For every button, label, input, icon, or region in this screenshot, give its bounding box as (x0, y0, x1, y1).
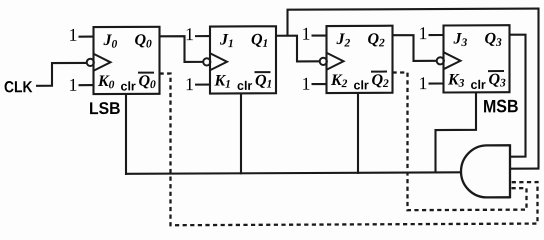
wire 1 to K3 (429, 82, 444, 84)
dashed wire Qbar2 to AND gate input (393, 72, 527, 210)
overline of Qbar3 (488, 70, 504, 72)
clock triangle U4 (444, 52, 461, 69)
wire clr pin U3 (357, 93, 359, 174)
wire 1 to J0 (79, 36, 94, 38)
svg-text:1: 1 (419, 73, 428, 93)
wire Q1 feedback into AND gate (510, 168, 540, 170)
wire Q1 to U3 clock (276, 36, 320, 62)
svg-text:clr: clr (471, 78, 486, 92)
wire 1 to K2 (312, 83, 327, 85)
wire Q3 to AND gate (510, 35, 526, 157)
svg-text:clr: clr (354, 78, 369, 92)
wire clr pin U4 with jog (436, 92, 477, 173)
AND gate flat edge (509, 144, 511, 198)
wire 1 to J1 (195, 35, 210, 37)
wire Q2 to U4 clock (393, 35, 438, 61)
svg-text:clr: clr (237, 79, 252, 93)
wire CLK to U1 clock (36, 63, 87, 86)
wire Q1 feedback riser (286, 10, 288, 36)
svg-text:1: 1 (185, 24, 194, 44)
wire 1 to J3 (429, 34, 444, 36)
wire Q1 feedback top run (287, 9, 540, 10)
AND gate G1 body (461, 145, 510, 197)
clock triangle U1 (94, 54, 111, 71)
svg-text:clr: clr (121, 79, 136, 93)
flip-flop U4 (J3 K3) box (444, 25, 510, 92)
svg-text:CLK: CLK (4, 79, 33, 96)
svg-text:1: 1 (419, 23, 428, 43)
overline of Qbar2 (371, 71, 387, 73)
svg-text:LSB: LSB (89, 99, 121, 118)
svg-text:MSB: MSB (483, 96, 519, 116)
overline of Qbar1 (255, 71, 271, 73)
svg-text:1: 1 (185, 74, 194, 94)
overline of Qbar0 (138, 72, 154, 74)
svg-text:1: 1 (302, 74, 311, 94)
clock bubble U3 (320, 58, 327, 65)
wire 1 to K1 (195, 84, 210, 86)
clock triangle U2 (210, 53, 227, 70)
wire Q1 feedback right drop (537, 8, 539, 169)
wire clr pin U2 (240, 93, 242, 174)
wire 1 to K0 (79, 84, 94, 86)
wire Q0 to U2 clock (160, 36, 204, 62)
dashed wire Qbar0 to AND gate input (160, 72, 538, 225)
wire 1 to J2 (312, 34, 327, 36)
clock bubble U4 (437, 57, 444, 64)
clock bubble U1 (87, 59, 94, 66)
flip-flop U1 (J0 K0) box (94, 27, 160, 94)
svg-text:1: 1 (69, 75, 78, 95)
flip-flop U3 (J2 K2) box (327, 26, 393, 93)
wire clr pin U1 (125, 94, 127, 175)
flip-flop U2 (J1 K1) box (210, 26, 276, 93)
svg-text:1: 1 (302, 24, 311, 44)
clock triangle U3 (327, 53, 344, 70)
wire clear bus from AND gate output (125, 172, 461, 174)
svg-text:1: 1 (69, 25, 78, 45)
clock bubble U2 (203, 58, 210, 65)
